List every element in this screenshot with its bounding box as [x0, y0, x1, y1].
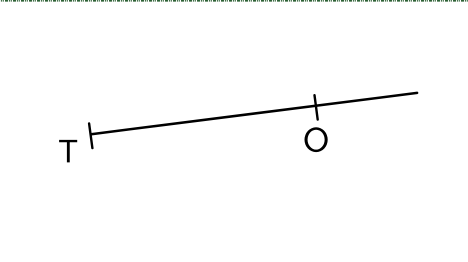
point label O	[305, 127, 328, 152]
tick mark at O	[315, 95, 318, 119]
endpoint tick at T	[89, 124, 92, 149]
top green dashed selection border	[0, 0, 468, 2]
point label T	[59, 140, 77, 163]
line segment through T and O	[91, 93, 417, 134]
